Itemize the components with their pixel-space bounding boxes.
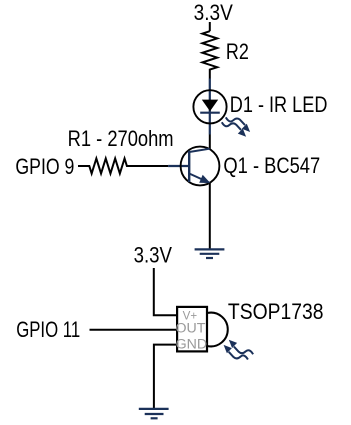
svg-text:3.3V: 3.3V	[134, 242, 173, 267]
D1 body circle	[193, 90, 226, 123]
svg-text:R1 - 270ohm: R1 - 270ohm	[68, 126, 174, 151]
TSOP sensor dome	[208, 313, 228, 347]
svg-text:GND: GND	[176, 337, 208, 353]
Q1 collector line	[189, 149, 210, 152]
ground bar 2	[200, 253, 220, 255]
wire Q1 emitter to ground	[209, 183, 211, 249]
emitted ray arrow 1	[226, 117, 250, 132]
svg-text:GPIO 9: GPIO 9	[15, 154, 74, 179]
ground bar 1	[195, 248, 225, 250]
svg-text:R2: R2	[226, 39, 249, 64]
Q1 base bar	[188, 151, 190, 182]
ground bar 1	[139, 408, 169, 410]
wire D1 cathode to Q1 collector	[209, 135, 211, 149]
received ray arrow 1	[229, 340, 253, 355]
resistor R1 with wire from GPIO 9	[78, 159, 168, 174]
ground symbol (lower)	[139, 409, 169, 418]
transistor Q1 (NPN BC547)	[181, 147, 220, 186]
IR receiver module TSOP1738	[176, 307, 228, 353]
wire TSOP GND pin to ground	[154, 345, 176, 409]
D1 anode triangle	[202, 100, 218, 112]
wire 3.3V to TSOP V+ pin	[154, 268, 177, 315]
svg-text:Q1 - BC547: Q1 - BC547	[223, 153, 320, 178]
Q1 body circle	[181, 147, 220, 186]
wire R2 to D1 (LED pin leads)	[209, 79, 211, 135]
emitted ray arrow 2	[222, 122, 246, 137]
wire 3.3V to R2 top	[209, 22, 211, 31]
Q1 emitter arrowhead	[199, 175, 210, 183]
wire R1 to Q1 base lead	[168, 165, 189, 167]
received ray arrow 2	[224, 345, 248, 360]
ground symbol (upper)	[195, 249, 225, 258]
ground bar 2	[145, 413, 164, 415]
svg-text:D1 - IR LED: D1 - IR LED	[230, 92, 328, 117]
TSOP body rectangle	[177, 307, 207, 352]
IR emission arrows from D1	[222, 117, 250, 136]
IR reception arrows into TSOP dome	[224, 340, 253, 360]
Q1 emitter line	[189, 174, 210, 183]
ground bar 3	[151, 417, 158, 419]
svg-text:TSOP1738: TSOP1738	[228, 299, 324, 324]
D1 cathode bar	[200, 112, 220, 114]
svg-text:3.3V: 3.3V	[194, 0, 234, 25]
diode D1 (IR LED)	[193, 90, 226, 123]
svg-text:OUT: OUT	[176, 321, 206, 337]
svg-text:GPIO 11: GPIO 11	[16, 317, 80, 342]
ground bar 3	[206, 257, 213, 259]
resistor R2	[202, 31, 217, 78]
wire GPIO 11 to TSOP OUT pin	[90, 329, 177, 331]
